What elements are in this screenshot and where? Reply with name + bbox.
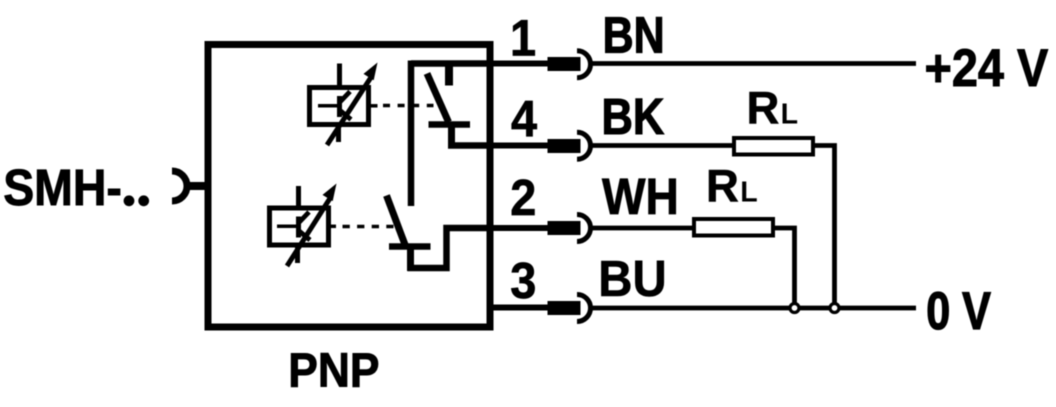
socket contact pin 4 [577,132,591,159]
svg-text:R: R [747,82,780,133]
sensor element B1 (reed switch, top) [310,64,378,143]
pin 4 stub [548,139,581,153]
svg-text:BK: BK [602,89,665,146]
actuation arrow (B1) [327,63,378,146]
switch S1 (top, NO contact) [427,64,470,146]
sensor housing [208,45,490,328]
wire: pin 2 to resistor [593,226,694,231]
svg-text:L: L [740,177,757,209]
wire: S1 output to pin 4 [448,142,493,149]
junction terminal (pin 2 load to 0V) [790,304,799,313]
socket contact pin 3 [577,295,591,322]
resistor RL (load, pin 4 circuit) [734,138,813,155]
wire: box to pin 4 stub [490,143,549,149]
svg-text:4: 4 [511,91,537,147]
wire: box to pin 2 stub [490,225,549,231]
svg-text:L: L [781,98,798,130]
pin 2 stub [548,221,581,235]
sensor element B2 (reed switch, bottom) [270,186,337,263]
actuation arrow (B2) [287,184,337,267]
wire: internal +24V rail [411,61,493,207]
wire: pin 4 to resistor [593,143,734,148]
svg-text:BN: BN [603,6,665,63]
socket contact pin 1 [577,51,591,78]
svg-text:WH: WH [602,169,679,226]
wire: pin 3 line inside box [489,304,493,311]
value label RL (pin 4 load) [747,82,799,133]
wire: pin 3 to 0V [593,306,917,311]
wire: resistor to 0V rail drop [775,228,795,303]
wire: resistor to 0V rail drop [815,146,835,303]
wire: pin 1 to +24V [593,61,917,66]
wire: S2 output to pin 2 [408,228,494,268]
dashed actuation link (bottom) [343,225,394,229]
svg-text:SMH-: SMH- [3,160,122,216]
pin 1 stub [548,57,581,71]
resistor RL (load, pin 2 circuit) [694,219,773,236]
wire: box to pin 1 stub [490,61,549,67]
svg-text:2: 2 [510,170,536,226]
dashed actuation link (top) [383,104,434,108]
junction terminal (pin 4 load to 0V) [830,304,839,313]
pin 3 stub [548,301,581,315]
svg-text:3: 3 [510,253,536,309]
svg-text:BU: BU [598,250,666,307]
svg-text:PNP: PNP [288,343,379,397]
value label RL (pin 2 load) [706,161,758,212]
wire: box to pin 3 stub [490,305,549,311]
svg-text:1: 1 [510,11,536,67]
socket contact pin 2 [577,215,591,242]
connector plug (sensor side) [172,171,206,201]
svg-text:0 V: 0 V [926,282,991,341]
svg-text:+24 V: +24 V [925,38,1049,97]
switch S2 (bottom, NO contact) [387,196,431,272]
svg-text:R: R [706,161,739,212]
